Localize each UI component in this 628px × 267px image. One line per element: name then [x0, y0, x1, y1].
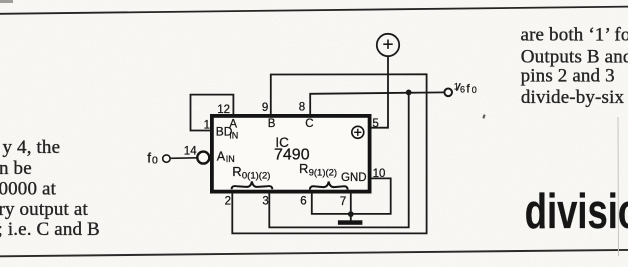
svg-text:y 4, the: y 4, the	[3, 137, 61, 158]
pin 1 to pin 12 feedback loop wire	[191, 95, 234, 131]
speck	[482, 114, 485, 118]
svg-text:are both ‘1’ fo: are both ‘1’ fo	[521, 24, 628, 45]
ground bar	[338, 220, 363, 225]
brace under R0 pins 2,3	[232, 181, 273, 189]
wire supply to pin 5	[371, 56, 388, 128]
svg-text:1: 1	[204, 120, 210, 132]
ground junction dot	[348, 211, 354, 217]
svg-text:5: 5	[372, 118, 378, 130]
svg-text:C: C	[305, 118, 313, 130]
svg-text:9: 9	[262, 102, 268, 114]
svg-text:B: B	[268, 118, 276, 130]
top rule	[0, 7, 628, 14]
svg-text:Outputs B and: Outputs B and	[521, 46, 628, 67]
wire pin 10 to ground rail	[312, 178, 391, 214]
wire QC to R0 pin 3	[269, 92, 408, 227]
svg-text:division: division	[525, 184, 628, 239]
output label 1/6 f0	[454, 81, 477, 95]
svg-text:IN: IN	[229, 131, 238, 141]
svg-text:0000 at: 0000 at	[0, 179, 57, 200]
svg-text:12: 12	[217, 104, 230, 116]
wire pin 7 to ground bar	[350, 193, 352, 221]
supply terminal +	[377, 34, 399, 56]
svg-text:A: A	[217, 149, 226, 163]
svg-text:f: f	[147, 151, 151, 166]
svg-text:14: 14	[184, 146, 197, 158]
junction QC node	[406, 90, 412, 96]
svg-text:3: 3	[262, 195, 268, 207]
svg-text:pins 2 and 3: pins 2 and 3	[521, 65, 615, 86]
svg-text:GND: GND	[341, 172, 367, 184]
svg-text:R: R	[232, 164, 241, 179]
svg-text:9(1)(2): 9(1)(2)	[309, 168, 338, 179]
svg-text:8: 8	[299, 102, 305, 114]
svg-text:0: 0	[472, 85, 477, 95]
wire QC pin 8 to output terminal	[310, 92, 444, 114]
svg-text:ry output at: ry output at	[0, 199, 88, 220]
svg-text:10: 10	[373, 168, 386, 180]
brace under R9 pins 6,7	[310, 182, 348, 190]
IC U1 7490 body	[212, 116, 370, 192]
svg-text:6: 6	[460, 85, 465, 95]
wire f0 to pin 14	[170, 157, 197, 160]
svg-text:divide-by-six: divide-by-six	[521, 87, 625, 108]
pin 14 input bubble	[197, 152, 209, 164]
svg-text:6: 6	[300, 196, 306, 208]
svg-text:IN: IN	[226, 154, 235, 164]
wire QB pin 9 to R0 pin 2	[232, 74, 426, 233]
top-left smudge	[0, 0, 13, 3]
svg-text:R: R	[299, 161, 308, 176]
right column text	[521, 24, 628, 108]
output terminal 1/6 f0	[444, 89, 452, 97]
left column text	[0, 137, 100, 240]
svg-text:7: 7	[340, 196, 346, 208]
Vcc plus symbol inside IC	[352, 126, 364, 138]
faint page fold line	[617, 117, 620, 256]
bottom rule	[0, 250, 628, 256]
svg-text:; i.e. C and B: ; i.e. C and B	[0, 219, 100, 240]
svg-text:0: 0	[152, 155, 158, 167]
input terminal f0	[163, 155, 170, 162]
svg-text:2: 2	[225, 196, 231, 208]
svg-text:0(1)(2): 0(1)(2)	[242, 171, 271, 182]
svg-text:n be: n be	[0, 158, 32, 179]
